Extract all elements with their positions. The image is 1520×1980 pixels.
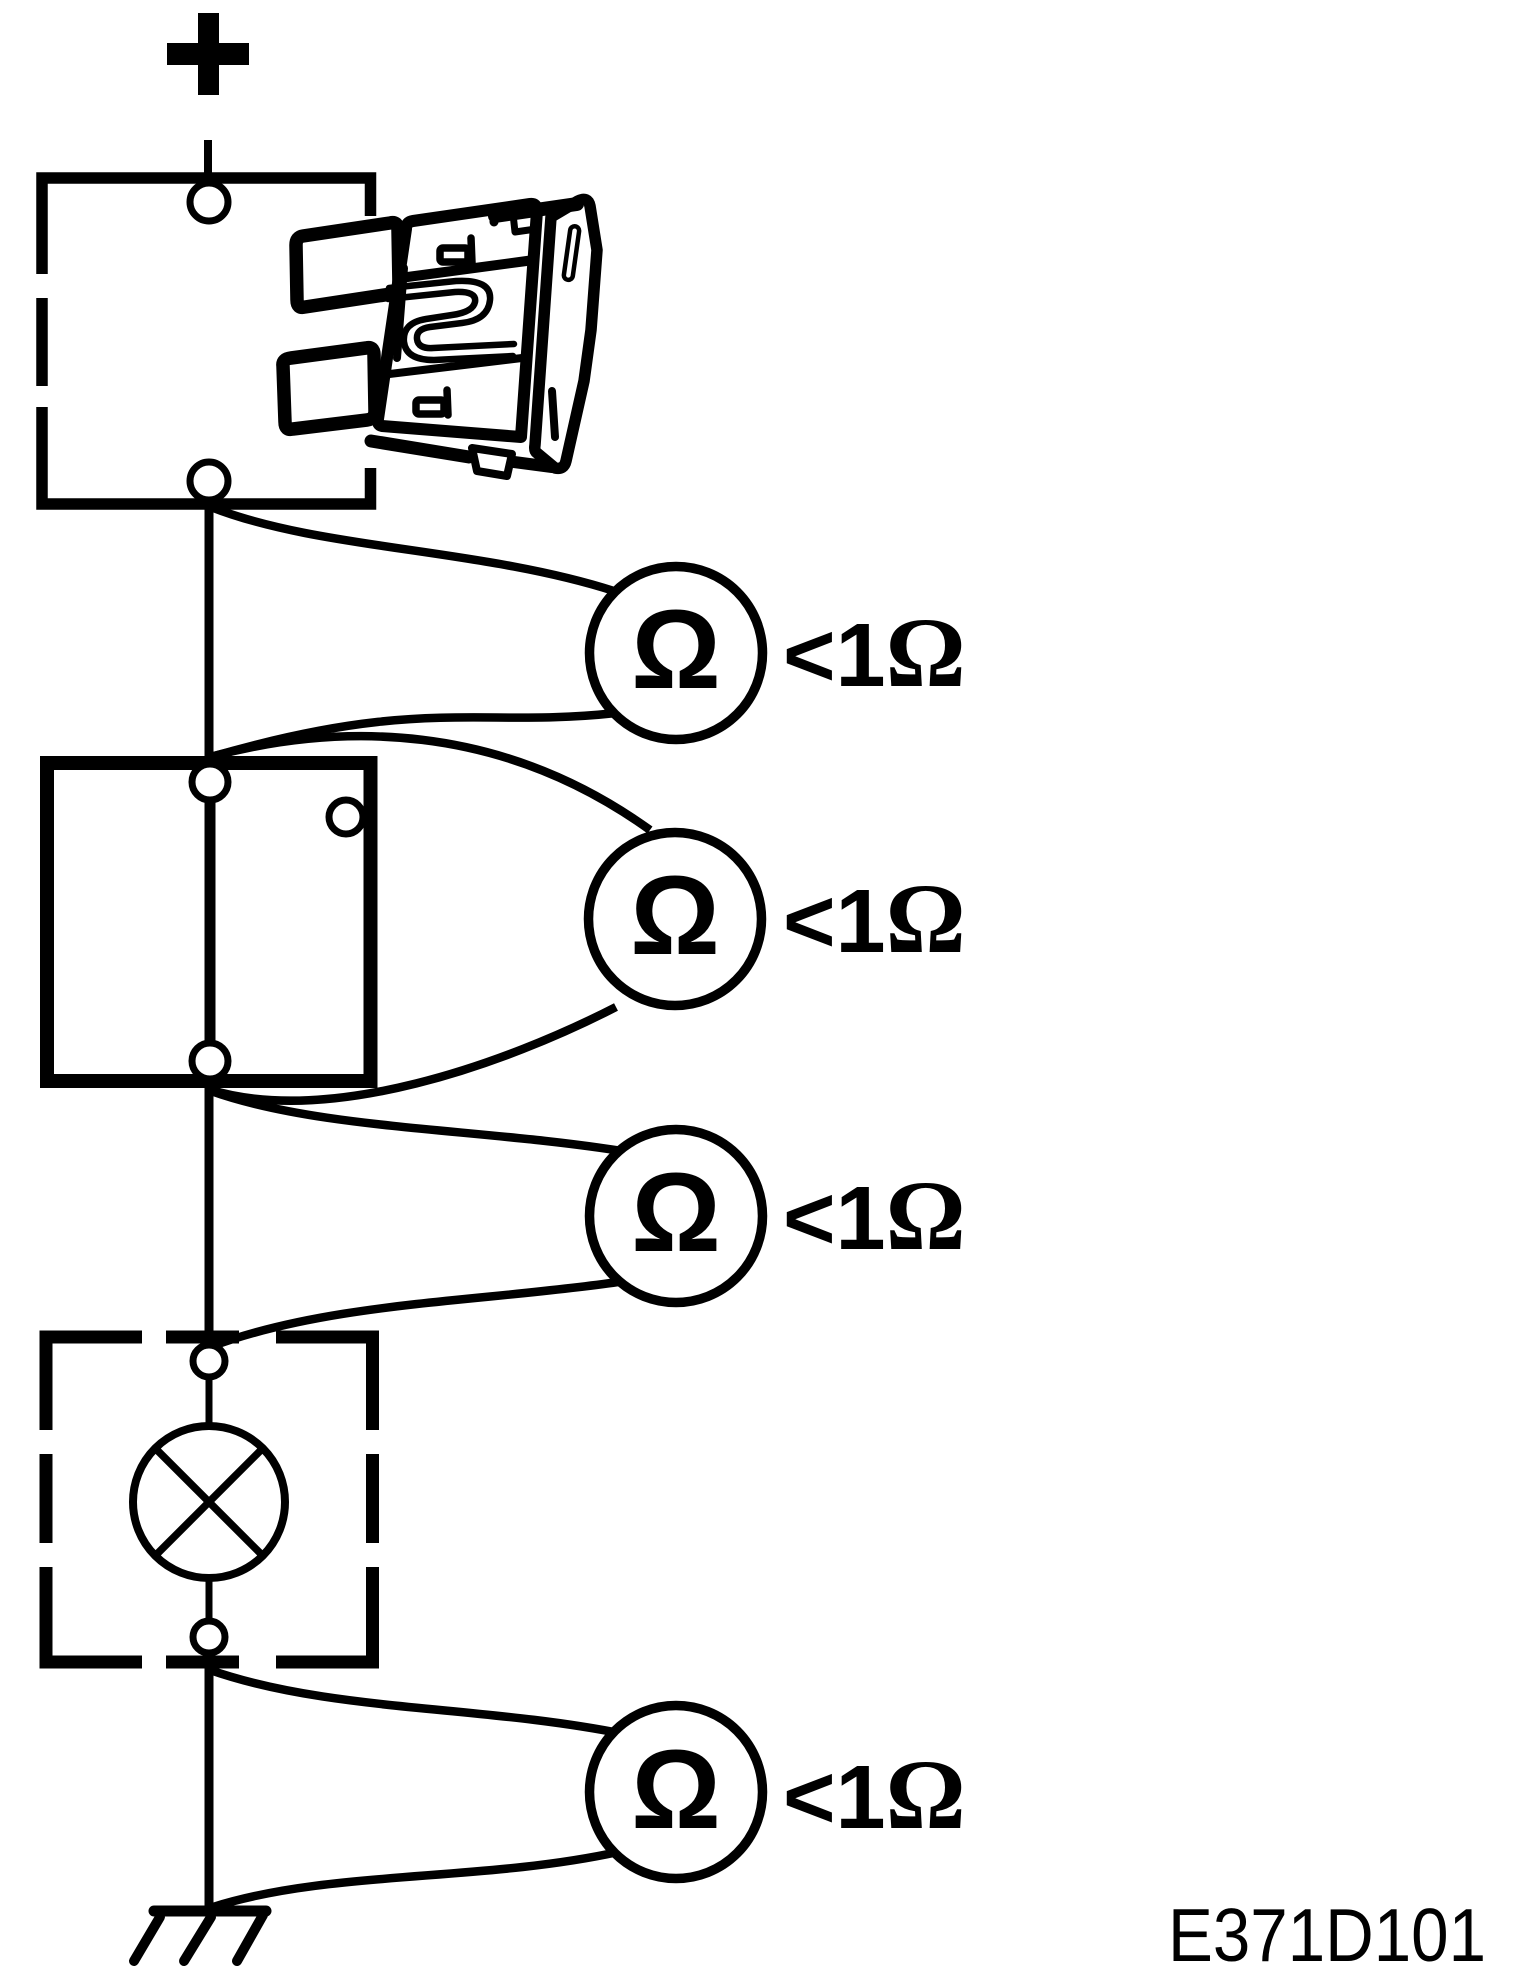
battery positive terminal + [167, 13, 249, 95]
ohmmeter M3 lead to bulb box top terminal [210, 1282, 618, 1347]
connector top terminal [192, 764, 228, 800]
fuse body front face [378, 204, 537, 437]
svg-text:<1Ω: <1Ω [783, 1739, 966, 1850]
svg-text:<1Ω: <1Ω [783, 597, 966, 708]
bulb box B3 (dashed) [46, 1337, 373, 1662]
ohmmeter M2 lead to connector top terminal [210, 736, 650, 830]
ohmmeter M4 circle [590, 1706, 763, 1879]
ohmmeter M4 lead to bulb box bottom terminal [210, 1670, 624, 1734]
wire from + to fuse box [204, 140, 212, 180]
connector small index circle [329, 800, 363, 834]
wire from fuse box to connector junction [205, 500, 214, 760]
fuse lower blade prong [283, 348, 375, 430]
fuse box bottom terminal [190, 462, 228, 500]
wire from connector to bulb box [205, 1086, 214, 1340]
fuse lower b mark stem [447, 390, 448, 415]
fuse upper blade prong [296, 223, 399, 308]
fuse bottom tab [472, 448, 512, 476]
fuse housing side panel [535, 199, 597, 468]
wire terminal to lamp [206, 1377, 213, 1428]
ohmmeter M3 lead to connector bottom terminal [211, 1091, 628, 1152]
ohmmeter M1 lead to fuse box bottom terminal [211, 507, 614, 591]
svg-text:Ω: Ω [631, 587, 721, 712]
wire from bulb box to ground [205, 1662, 214, 1908]
connector bottom terminal [192, 1043, 228, 1079]
svg-text:Ω: Ω [631, 1150, 721, 1275]
fuse lower b mark bowl [416, 400, 444, 414]
fuse element wall A [389, 281, 514, 348]
fuse side panel bottom line [552, 391, 555, 437]
fuse housing bar left step [490, 209, 499, 222]
ohmmeter M4 lead to ground [213, 1852, 618, 1907]
fuse face corner notch [513, 214, 536, 232]
lamp symbol circle [133, 1426, 285, 1578]
fuse element wall B [388, 292, 513, 360]
fuse face lower divider [381, 358, 522, 375]
fuse upper b mark bowl [440, 248, 468, 262]
svg-text:<1Ω: <1Ω [783, 863, 966, 974]
fuse bottom skirt left [371, 441, 469, 457]
ohmmeter M1 circle [590, 567, 763, 740]
fuse pictorial [283, 199, 597, 476]
connector box B2 [47, 763, 371, 1081]
svg-text:Ω: Ω [630, 853, 720, 978]
wire lamp to bottom terminal [206, 1576, 213, 1622]
svg-text:Ω: Ω [631, 1727, 721, 1852]
svg-text:<1Ω: <1Ω [783, 1160, 966, 1271]
fuse housing top bar [495, 204, 577, 216]
fuse side panel slot [563, 226, 579, 281]
ohmmeter M1 lead to connector top terminal [211, 713, 616, 757]
ohmmeter M3 circle [590, 1130, 763, 1303]
bulb box bottom terminal [193, 1621, 225, 1653]
svg-text:E371D101: E371D101 [1168, 1893, 1486, 1977]
ohmmeter M2 lead to connector bottom terminal [211, 1007, 616, 1101]
fuse face upper divider [400, 260, 534, 278]
bulb box top terminal [193, 1345, 225, 1377]
fuse upper b mark stem [471, 238, 472, 263]
ohmmeter M2 circle [589, 833, 762, 1006]
fuse element window left border [397, 268, 404, 358]
lamp X stroke 1 [155, 1448, 262, 1555]
lamp X stroke 2 [155, 1448, 262, 1555]
fuse box top terminal [190, 183, 228, 221]
fuse bottom skirt right [514, 462, 552, 467]
connector internal wire [205, 795, 216, 1050]
fuse box (dashed component box B1) [42, 178, 371, 504]
ground symbol [134, 1911, 266, 1961]
